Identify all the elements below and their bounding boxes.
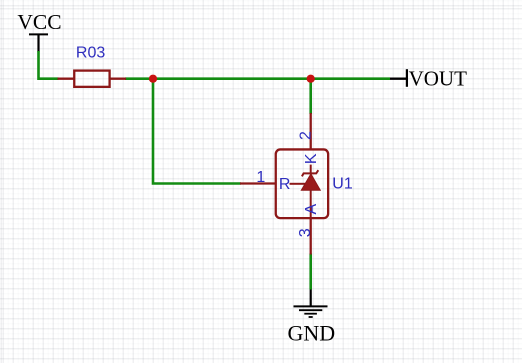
svg-text:1: 1 xyxy=(256,169,265,186)
svg-text:R: R xyxy=(279,176,291,193)
svg-text:VCC: VCC xyxy=(17,10,61,34)
svg-text:2: 2 xyxy=(297,131,314,140)
svg-text:R03: R03 xyxy=(76,44,105,61)
svg-text:A: A xyxy=(303,204,320,215)
svg-text:K: K xyxy=(303,153,320,164)
svg-text:VOUT: VOUT xyxy=(409,67,467,91)
svg-text:U1: U1 xyxy=(332,176,353,193)
svg-text:3: 3 xyxy=(297,228,314,237)
svg-text:GND: GND xyxy=(288,321,336,346)
